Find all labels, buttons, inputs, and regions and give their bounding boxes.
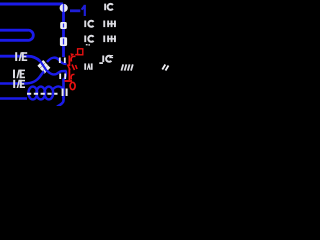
label 1E second xyxy=(13,70,25,79)
red net label 0 xyxy=(70,82,75,89)
red dash top-right xyxy=(75,54,80,56)
capacitor plates pair lower (tangle) xyxy=(60,74,65,80)
value text row3 left xyxy=(84,36,93,43)
value text row2 left xyxy=(84,21,93,28)
red annotation square xyxy=(78,49,83,55)
inductor L1 loop 2 xyxy=(36,87,45,100)
terminal bars bottom xyxy=(63,89,67,97)
wire through C2 xyxy=(63,39,65,45)
wire through terminal xyxy=(63,4,65,13)
red marks row xyxy=(68,65,78,71)
wire elbow from lower lead xyxy=(64,71,66,80)
stray specks xyxy=(86,44,90,46)
red bar lower xyxy=(68,69,70,81)
inductor hairpin loop xyxy=(0,30,33,40)
capacitor C1 body xyxy=(60,22,67,29)
value text row2 right xyxy=(103,21,116,28)
wire vertical bus xyxy=(62,4,65,57)
wire through battery xyxy=(41,62,48,72)
red horizontal dash xyxy=(65,80,73,82)
wire lower lead to right xyxy=(47,71,67,75)
wire vertical lower xyxy=(62,79,65,99)
label -1 digit xyxy=(81,5,86,16)
node terminal top corner xyxy=(60,4,68,12)
wire upper lead to right xyxy=(47,58,67,64)
battery B1 diagonal plates xyxy=(39,61,50,72)
wire lower-left horizontal xyxy=(0,71,44,83)
inductor L1 core dashes xyxy=(27,93,58,95)
inductor L1 loop 3 xyxy=(44,87,53,100)
value text row5 left xyxy=(84,62,103,70)
value text 1C top xyxy=(104,4,113,11)
tick marks symbol right xyxy=(162,65,168,71)
label -1 dash xyxy=(70,9,80,12)
inductor L1 exit lead xyxy=(53,87,63,90)
value text row3 right xyxy=(103,36,116,43)
wire mid-left horizontal xyxy=(0,56,41,61)
value text row5 mid xyxy=(121,64,132,70)
label 1E third xyxy=(13,80,25,88)
capacitor plates pair upper (tangle) xyxy=(60,58,65,64)
value text row4 xyxy=(102,55,113,62)
red c-curve xyxy=(71,56,75,61)
inductor L1 loop 1 xyxy=(28,87,37,100)
red arrowhead xyxy=(70,53,74,56)
inductor L1 coil baseline xyxy=(0,97,27,100)
red c-curve lower xyxy=(71,74,74,79)
wire bottom J bend xyxy=(57,97,64,107)
red bar upper xyxy=(68,56,70,67)
label 1E xyxy=(15,52,27,61)
capacitor C2 body xyxy=(60,37,67,46)
wire through C1 xyxy=(63,24,65,28)
wire top horizontal xyxy=(0,3,63,6)
